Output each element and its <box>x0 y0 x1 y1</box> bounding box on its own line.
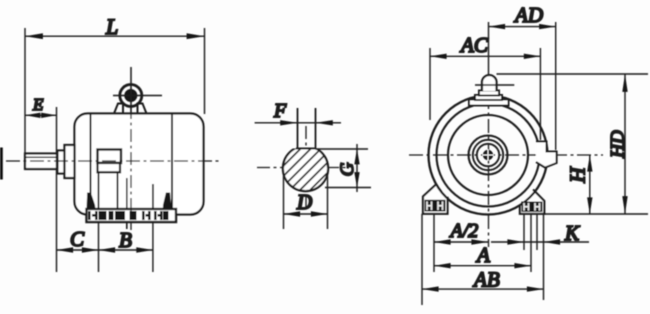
terminal box upper <box>98 150 122 164</box>
svg-text:HD: HD <box>607 130 628 159</box>
dimension K <box>491 239 589 244</box>
dimension H <box>587 155 592 214</box>
body internal line front <box>90 114 92 196</box>
front centerline horizontal <box>409 154 603 156</box>
keyway slot sides <box>297 108 299 149</box>
foot hatch marks <box>88 211 169 220</box>
dimension AD <box>489 22 556 150</box>
dimension AB <box>422 286 544 291</box>
svg-text:K: K <box>564 221 580 245</box>
hub circle mid <box>473 140 503 170</box>
stator circle <box>448 115 528 195</box>
foot hatch left <box>425 200 446 212</box>
svg-text:AC: AC <box>459 33 489 57</box>
gusset right <box>163 193 172 210</box>
dimension D <box>284 176 328 229</box>
foot right <box>520 190 544 214</box>
centerline horizontal (side view) <box>6 160 222 162</box>
dimension A <box>434 263 531 268</box>
svg-text:E: E <box>32 95 44 114</box>
svg-text:C: C <box>70 227 85 251</box>
shaft <box>25 154 58 170</box>
svg-text:AD: AD <box>513 3 543 27</box>
svg-text:L: L <box>105 14 118 39</box>
shaft collar 1 <box>58 151 65 174</box>
hub center filled <box>483 150 493 160</box>
body internal line rear <box>171 114 173 209</box>
terminal box lower <box>98 163 121 172</box>
dimension AC <box>430 48 540 140</box>
svg-text:A/2: A/2 <box>449 220 479 242</box>
section centerline horizontal <box>257 167 346 169</box>
dimension G <box>315 144 371 192</box>
svg-text:AB: AB <box>472 268 500 292</box>
extension line top (eyebolt top) <box>497 73 649 75</box>
hub circle inner <box>477 144 499 166</box>
eyebolt block1 front <box>479 91 499 96</box>
dimension L <box>25 28 205 153</box>
svg-text:H: H <box>566 166 590 184</box>
gusset left <box>87 193 96 210</box>
hub circle outer <box>469 136 508 175</box>
dimension E <box>25 107 57 272</box>
eyebolt crossbar front <box>475 84 514 86</box>
scan artifact left edge <box>0 148 3 180</box>
frame outer circle <box>429 96 548 215</box>
dimension HD <box>622 74 627 214</box>
keyway flat <box>296 148 315 150</box>
ground line extended <box>544 213 648 215</box>
svg-text:G: G <box>337 162 358 176</box>
motor body <box>75 114 204 215</box>
svg-text:F: F <box>273 100 287 122</box>
conduit line below terminal box left <box>98 172 100 209</box>
dimension C and B <box>57 222 153 272</box>
shaft collar 2 <box>65 145 75 178</box>
dimension F <box>255 120 341 125</box>
eyebolt boss right leg <box>138 104 147 114</box>
dimension A/2 <box>434 239 488 244</box>
centerline vertical through eyebolt <box>130 67 132 113</box>
front centerline vertical <box>488 22 490 78</box>
eyebolt ring front <box>482 75 497 91</box>
svg-text:A: A <box>475 243 490 267</box>
section centerline vertical <box>305 126 307 210</box>
under-foot extension lines <box>422 214 544 305</box>
eyebolt boss front <box>469 100 509 106</box>
shaft keyway line <box>25 156 58 158</box>
eyebolt outer ring <box>120 85 142 107</box>
eyebolt block2 front <box>475 95 502 100</box>
frame second circle <box>437 104 540 207</box>
svg-text:B: B <box>119 228 132 252</box>
bolt hole line rear <box>152 184 154 209</box>
foot hatch right <box>521 202 542 213</box>
foot bar <box>87 209 177 222</box>
conduit line below terminal box right <box>117 172 119 209</box>
eyebolt crossbar <box>113 95 162 97</box>
eyebolt inner filled <box>124 89 137 102</box>
wire line mid <box>126 178 128 229</box>
svg-text:D: D <box>296 190 312 214</box>
terminal lug right side <box>536 142 557 168</box>
foot left <box>423 185 448 214</box>
eyebolt boss left leg <box>114 104 123 114</box>
